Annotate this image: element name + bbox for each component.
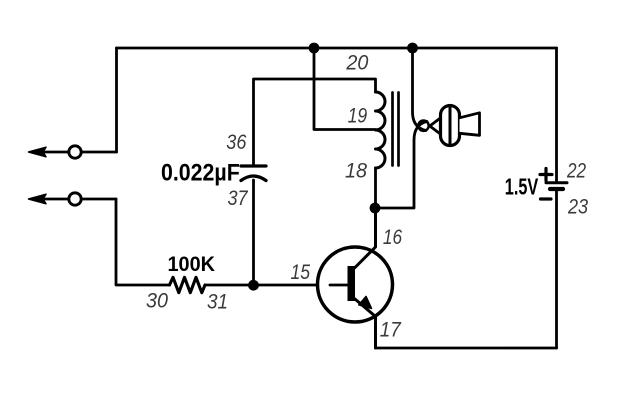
svg-text:100K: 100K <box>168 253 216 277</box>
wire: earphone top lead <box>413 48 427 131</box>
svg-text:22: 22 <box>566 159 586 183</box>
wire: base into bar <box>330 284 351 287</box>
wire: base line from resistor to transistor <box>205 284 348 287</box>
node: junction dot base/capacitor <box>248 280 259 291</box>
wire: top rail <box>117 47 557 50</box>
wire: battery upper lead <box>555 48 558 181</box>
earphone cord twist loop <box>418 121 428 131</box>
svg-text:19: 19 <box>348 104 368 128</box>
earphone body center line <box>449 106 452 146</box>
node: junction dot top rail / tap branch <box>309 43 320 54</box>
svg-text:15: 15 <box>291 260 311 284</box>
node: junction dot top rail / earphone branch <box>407 43 418 54</box>
transistor Q body circle <box>318 247 393 322</box>
inductor core line 1 <box>391 93 394 166</box>
transistor Q emitter arrowhead <box>359 297 372 309</box>
battery minus sign <box>541 197 552 200</box>
terminal A circle <box>69 146 81 158</box>
earphone cone (left) <box>430 118 441 135</box>
terminal A arrowhead <box>29 147 47 157</box>
svg-text:30: 30 <box>146 289 168 313</box>
terminal A lead wire <box>41 151 117 154</box>
earphone horn <box>460 113 480 136</box>
terminal B lead wire <box>41 198 116 201</box>
svg-text:0.022µF: 0.022µF <box>161 158 240 185</box>
svg-text:20: 20 <box>345 51 368 75</box>
wire: battery lower lead <box>555 191 558 349</box>
transistor Q emitter lead <box>352 297 376 349</box>
battery BT long plate (positive) <box>546 181 567 184</box>
transistor Q collector lead <box>352 208 376 271</box>
resistor R (100K) zigzag <box>170 277 206 292</box>
svg-text:18: 18 <box>345 159 367 183</box>
wire: earphone bottom lead <box>375 122 427 209</box>
svg-text:23: 23 <box>567 195 588 219</box>
svg-text:16: 16 <box>383 225 402 249</box>
wire: capacitor upper lead up and right to coil top <box>254 79 376 166</box>
svg-text:1.5V: 1.5V <box>505 175 539 200</box>
battery BT short plate (negative) <box>550 187 563 191</box>
earphone body <box>441 106 460 146</box>
svg-text:17: 17 <box>380 318 402 341</box>
terminal B circle <box>69 193 81 205</box>
wire: left vertical (terminal A to top rail) <box>115 48 118 152</box>
wire: coil bottom down to collector node <box>374 168 377 208</box>
capacitor C straight plate <box>241 164 266 167</box>
wire: bottom rail <box>376 347 557 350</box>
node: junction dot coil/earphone/collector <box>370 203 381 214</box>
battery plus sign <box>540 169 552 181</box>
svg-text:31: 31 <box>207 290 228 313</box>
svg-text:36: 36 <box>226 130 247 154</box>
wire: left vertical (terminal B down to base line) <box>116 199 170 285</box>
wire: tap branch from top rail down to coil tap <box>314 48 376 130</box>
svg-text:37: 37 <box>228 187 249 211</box>
terminal B arrowhead <box>29 194 47 204</box>
capacitor C (0.022uF) curved plate <box>241 176 266 181</box>
wire: capacitor lower lead <box>252 180 255 285</box>
inductor core line 2 <box>397 93 400 166</box>
transistor Q base bar <box>348 266 356 301</box>
inductor L (tapped coil) windings <box>376 92 386 168</box>
